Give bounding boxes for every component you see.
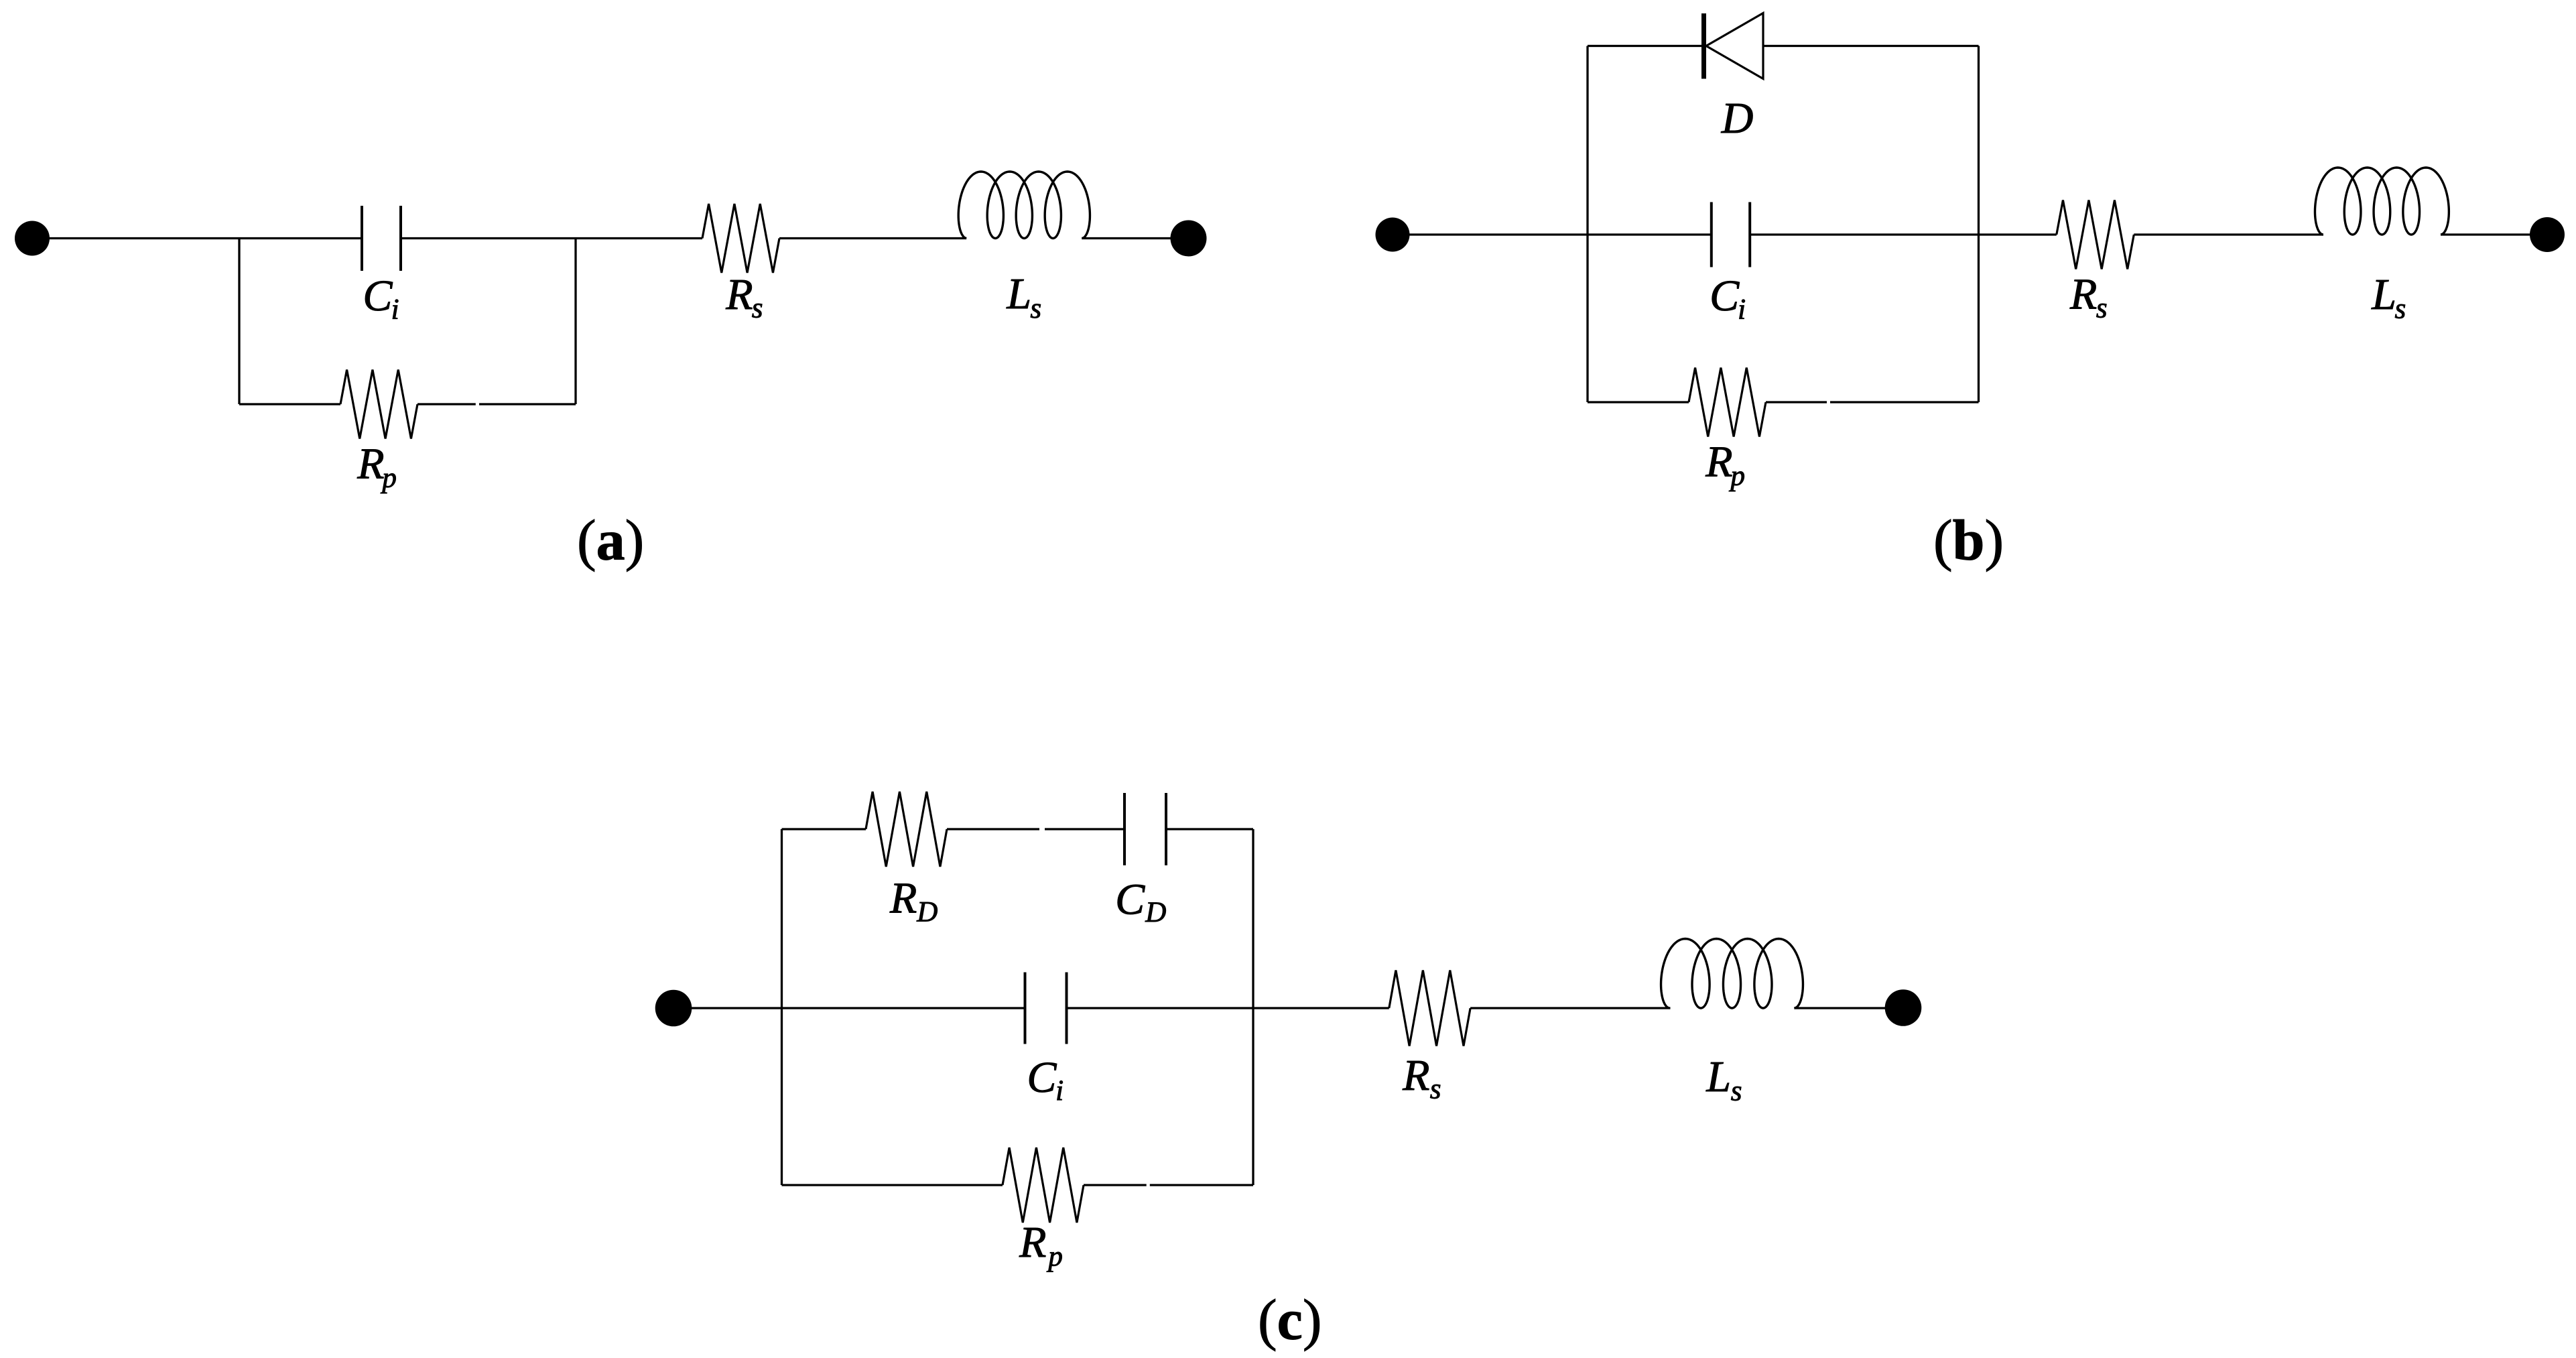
resistor Rs (c)	[1389, 971, 1470, 1046]
wire left terminal to box (b)	[1393, 233, 1588, 235]
terminal node right (c)	[1885, 989, 1922, 1026]
inductor Ls (a)	[958, 172, 1090, 239]
svg-text:L: L	[1705, 1052, 1731, 1101]
bottom wire left segment (b)	[1588, 401, 1689, 403]
wire Rs to Ls (b)	[2134, 233, 2323, 235]
svg-text:i: i	[391, 294, 399, 326]
wire Rs to Ls (c)	[1470, 1007, 1670, 1009]
svg-text:s: s	[752, 293, 763, 324]
wire Ls to right terminal (a)	[1082, 237, 1188, 239]
top branch wire segment 2 (c)	[1045, 828, 1124, 830]
resistor Rs (b)	[2057, 200, 2134, 269]
svg-text:p: p	[380, 462, 397, 494]
svg-text:(b): (b)	[1933, 508, 2004, 572]
bottom wire right segment (a)	[479, 403, 576, 405]
diode branch wire left (b)	[1588, 45, 1702, 47]
wire Ci to box-right (b)	[1750, 233, 1978, 235]
terminal node right (b)	[2530, 217, 2565, 252]
svg-text:R: R	[889, 874, 917, 923]
svg-text:R: R	[1019, 1218, 1046, 1267]
resistor Rs (a)	[702, 204, 779, 273]
right branch wire (a)	[574, 239, 576, 405]
wire box-left to Ci (c)	[782, 1007, 1025, 1009]
capacitor Ci (a)	[361, 206, 363, 271]
top branch wire left (c)	[782, 828, 866, 830]
right branch wire (c)	[1252, 829, 1254, 1185]
bottom wire left segment (c)	[782, 1184, 1003, 1186]
diode D triangle (b)	[1706, 13, 1763, 79]
svg-text:R: R	[2069, 270, 2097, 319]
resistor RD (c)	[866, 792, 947, 867]
diode D cathode bar (b)	[1701, 13, 1706, 79]
bottom wire right segment (b)	[1830, 401, 1979, 403]
svg-text:R: R	[357, 440, 384, 489]
svg-text:D: D	[1145, 897, 1166, 928]
wire Ls to right terminal (c)	[1794, 1007, 1903, 1009]
svg-text:p: p	[1046, 1241, 1063, 1272]
top branch wire RD to CD (c)	[947, 828, 1039, 830]
svg-text:R: R	[1402, 1051, 1429, 1100]
capacitor Ci (c)	[1024, 973, 1027, 1044]
left branch wire (a)	[238, 239, 240, 405]
svg-text:s: s	[1731, 1076, 1742, 1107]
resistor Rp (b)	[1689, 368, 1766, 437]
bottom wire lead after Rp (b)	[1766, 401, 1827, 403]
terminal node left (b)	[1376, 218, 1410, 252]
svg-text:s: s	[1430, 1074, 1441, 1105]
svg-text:(a): (a)	[577, 508, 644, 572]
svg-text:C: C	[363, 271, 393, 320]
inductor Ls (b)	[2315, 168, 2449, 235]
terminal node left (c)	[655, 990, 692, 1027]
svg-text:s: s	[2395, 294, 2406, 325]
wire box to Rs (c)	[1253, 1007, 1389, 1009]
bottom wire right segment (c)	[1150, 1184, 1253, 1186]
wire Ci to box-right (c)	[1067, 1007, 1254, 1009]
bottom wire left segment (a)	[239, 403, 340, 405]
bottom wire lead after Rp (a)	[417, 403, 476, 405]
capacitor CD (c)	[1123, 793, 1126, 865]
svg-text:s: s	[1030, 293, 1041, 324]
svg-text:p: p	[1729, 460, 1746, 492]
svg-text:C: C	[1027, 1053, 1057, 1102]
resistor Rp (a)	[340, 370, 417, 439]
terminal node right (a)	[1171, 221, 1207, 257]
svg-text:C: C	[1115, 875, 1145, 924]
svg-text:R: R	[1705, 438, 1732, 487]
wire Rs to Ls (a)	[779, 237, 966, 239]
svg-text:L: L	[2371, 270, 2396, 319]
svg-text:D: D	[1721, 94, 1754, 143]
svg-text:R: R	[725, 270, 753, 319]
right branch wire (b)	[1978, 46, 1980, 403]
terminal node left (a)	[15, 221, 50, 256]
wire box to Rs (b)	[1979, 233, 2057, 235]
diode branch wire right (b)	[1763, 45, 1979, 47]
svg-text:i: i	[1738, 294, 1746, 326]
wire left terminal to Ci (a)	[32, 237, 362, 239]
top branch wire right (c)	[1166, 828, 1253, 830]
svg-text:s: s	[2096, 293, 2108, 324]
left branch wire (b)	[1586, 46, 1588, 403]
wire Ci to Rs (a)	[401, 237, 702, 239]
inductor Ls (c)	[1661, 939, 1803, 1009]
svg-text:L: L	[1006, 269, 1031, 318]
resistor Rp (c)	[1003, 1148, 1084, 1223]
left branch wire (c)	[781, 829, 783, 1185]
svg-text:i: i	[1055, 1075, 1064, 1107]
capacitor Ci (b)	[1710, 202, 1713, 267]
svg-text:(c): (c)	[1258, 1288, 1322, 1352]
wire left terminal to box (c)	[673, 1007, 782, 1009]
wire Ls to right terminal (b)	[2441, 233, 2547, 235]
wire box-left to Ci (b)	[1588, 233, 1712, 235]
svg-text:C: C	[1710, 271, 1740, 320]
bottom wire lead after Rp (c)	[1084, 1184, 1147, 1186]
svg-text:D: D	[916, 897, 938, 928]
